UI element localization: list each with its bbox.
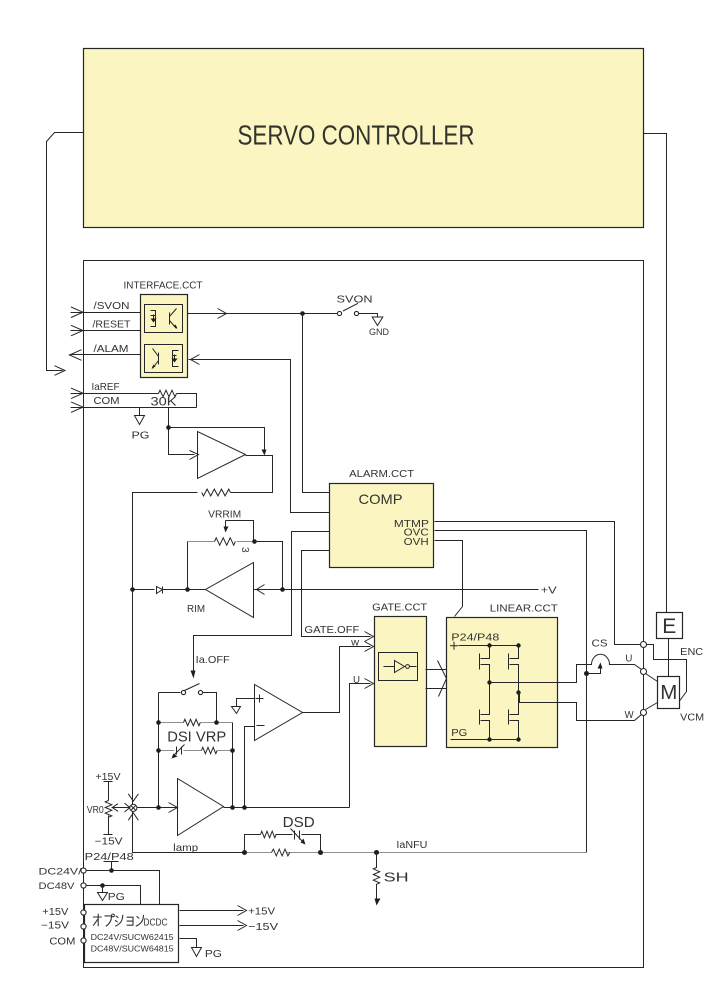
interface block U1 [141,295,188,378]
switch Ia.OFF blade [185,684,200,691]
node SH [374,850,379,855]
resistor follower feedback [202,489,231,496]
wire VRRIM left down to RIM output node [187,542,189,590]
wire DC24V to DCDC [86,871,160,905]
svg-text:CS: CS [592,638,608,650]
diode D1 [157,587,163,594]
svg-text:30K: 30K [151,395,177,409]
arrow w into gate block [365,642,374,652]
op-amp follower [198,432,246,479]
node comparator return [242,805,247,810]
gate buffer cell [379,653,418,681]
wire DC48V to DCDC [86,886,141,905]
wire U phase out [490,682,557,684]
node VRRIM right [252,539,257,544]
wire RIM output to diode [133,589,206,591]
/RESET input wire [71,330,141,332]
wire COMP left to GATE.OFF [302,551,371,637]
buffer symbol [384,661,417,673]
resistor DSI upper [159,722,233,724]
arrow Ia.OFF down [191,671,196,679]
node P24 tap [109,868,114,873]
port DC24V [81,868,86,873]
wire multiplier down to main line [133,812,245,853]
svg-text:DC48V: DC48V [39,881,76,892]
wire comparator minus down [245,727,255,808]
svg-text:INTERFACE.CCT: INTERFACE.CCT [124,280,204,292]
wire MTMP to motor terminal [435,522,641,645]
node DSI return [230,805,235,810]
resistor SH [373,853,379,899]
resistor DSI lower [202,747,218,753]
wire switch right side [203,693,217,723]
svg-text:−15V: −15V [41,921,69,932]
node SVON junction [300,311,305,316]
wire -15V out [180,925,244,927]
arrow into lamp amp [169,803,178,813]
arrow SH ground [375,899,381,906]
PG symbol DCDC out [192,948,202,957]
wire SVON junction down into COMP [303,314,330,493]
svg-text:PG: PG [451,727,467,739]
node lamp input [156,805,161,810]
svg-text:COMP: COMP [359,491,403,507]
port COM [81,938,86,943]
node RIM left [130,587,135,592]
/RESET arrow [71,325,83,336]
arrow into follower [190,451,199,460]
PG symbol near DC48V [98,886,108,901]
op-amp RIM [206,563,254,618]
arrow VR0 wiper [112,804,118,812]
/ALAM arrow [70,350,82,361]
svg-text:SH: SH [384,871,409,885]
plus lead linear [450,642,458,650]
comparator plus [256,695,264,703]
wire +15V out [180,910,244,912]
svg-text:−15V: −15V [95,837,123,848]
svg-text:LINEAR.CCT: LINEAR.CCT [490,603,559,615]
opto 2 LED symbol [173,351,179,367]
svg-text:VR0: VR0 [87,805,104,816]
svg-text:COM: COM [94,395,120,407]
outer enclosure box [84,261,644,968]
encoder E box [657,613,683,639]
DCDC converter box [85,905,179,963]
node follower input [166,425,171,430]
wire feedback resistor to RIM node [133,493,198,590]
node RIM output [185,587,190,592]
wire terminal W into motor [646,703,658,710]
svg-text:PG: PG [132,430,150,442]
P24/P48 tap [104,862,119,871]
top rail linear [459,645,519,647]
motor M box [658,677,680,709]
wire lamp output [224,807,350,809]
COM input wire [71,407,197,409]
svg-text:W: W [625,709,634,721]
svg-text:SERVO CONTROLLER: SERVO CONTROLLER [238,120,475,151]
svg-text:U: U [353,675,360,686]
svg-text:E: E [662,615,676,638]
svg-text:+15V: +15V [248,906,275,918]
katakana option label [93,914,143,927]
optocoupler input cell [145,305,183,333]
svg-text:GATE.CCT: GATE.CCT [372,602,428,614]
terminal MTMP [641,642,647,648]
svg-text:M: M [660,681,677,704]
node DSD right [318,850,323,855]
wire W phase out [519,693,557,703]
svg-text:GATE.OFF: GATE.OFF [304,624,359,636]
wire servo-right down to encoder [644,134,667,613]
trimmer DSD [291,829,304,843]
multiplier symbol [130,804,137,811]
terminal U [641,669,647,675]
arrow RIM input [257,585,265,595]
potentiometer VRRIM body [188,541,215,543]
svg-text:RIM: RIM [187,603,205,615]
svg-text:DC48V/SUCW64815: DC48V/SUCW64815 [91,944,174,954]
arrow into multiplier top [128,794,138,801]
DSD bypass branch [245,835,321,853]
svg-text:P24/P48: P24/P48 [451,632,499,644]
wire comparator plus to ground [237,699,255,707]
transistor Q2 upper right [509,646,519,693]
svg-text:GND: GND [369,327,389,337]
svg-text:U: U [625,653,632,665]
VRRIM wiper wire [226,521,254,542]
wire follower output to feedback resistor [231,456,273,493]
arrow +15V out [238,906,247,916]
svg-text:DSI VRP: DSI VRP [167,729,226,746]
node DSI lower right [230,748,235,753]
switch SVON blade [343,303,358,311]
CS tap [587,667,601,674]
transistor Q1 upper left [480,646,490,683]
arrow on SVON wire [218,309,227,319]
GND symbol at SVON switch [372,317,383,326]
wire switch to GND [359,314,378,318]
wire E to M [668,639,670,677]
SVON output wire to switch [188,313,338,315]
optocoupler output cell [145,345,183,373]
node DSI lower left [156,748,161,753]
wire RIM node down to multiplier [132,590,134,805]
arrow into multiplier left [125,803,130,812]
svg-text:−15V: −15V [248,921,278,933]
arrow into multiplier bottom [128,813,138,820]
svg-text:ALARM.CCT: ALARM.CCT [349,468,415,480]
wire servo-left loop down to IaREF arrow [47,133,84,371]
wire lamp output up to U input [350,684,371,808]
/ALAM output wire [70,354,141,356]
ground at comparator [232,707,241,714]
arrow feedback down [262,450,267,456]
/SVON arrow [71,307,83,318]
servo controller block [84,49,644,228]
node +V line junction [280,587,285,592]
svg-text:ENC: ENC [680,647,703,658]
opto 1 transistor symbol [170,309,177,329]
wire OVC to current sense line [435,531,587,853]
gate to linear wires [426,670,447,689]
svg-text:VCM: VCM [680,713,704,724]
wire terminal MTMP wrap to motor right [647,645,687,702]
comparator op-amp [255,685,303,741]
arrow into opto 2 [191,355,200,365]
svg-text:IaNFU: IaNFU [396,840,427,851]
opto 2 transistor symbol [153,349,159,369]
wire OVH to linear block [435,541,463,617]
svg-text:DCDC: DCDC [144,917,168,928]
wire U to motor with CS loop [557,654,642,682]
svg-text:/RESET: /RESET [93,319,132,331]
svg-text:DC24V/SUCW62415: DC24V/SUCW62415 [91,932,174,942]
svg-text:SVON: SVON [337,294,373,306]
arrow GATE.OFF into gate block [365,632,374,642]
linear block [447,618,558,748]
port DC48V [81,883,86,888]
PG symbol under COM line [135,408,145,425]
svg-text:PG: PG [205,948,222,960]
minus lead linear [451,739,459,741]
svg-text:Ia.OFF: Ia.OFF [196,654,230,666]
wire VR0 wiper to multiplier [112,807,130,809]
wire terminal U into motor [646,674,658,682]
node PG tap [100,883,105,888]
node DSI upper left [156,720,161,725]
wire ALAM return from COMP [189,360,330,513]
arrow VRRIM wiper [224,527,229,533]
COM arrow [71,402,83,413]
wire W to motor [557,703,642,721]
arrow -15V out [238,921,247,931]
wire DSI right branch down [232,723,234,808]
wire RIM input +V line [254,589,539,591]
arrow CS up [598,663,603,669]
svg-text:3: 3 [239,547,250,553]
wire PG out [180,939,197,948]
svg-text:+15V: +15V [42,907,68,918]
transistor Q3 lower left [480,683,490,740]
wire multiplier to lamp amp [137,807,178,809]
/SVON input wire [71,312,141,314]
node DSD left [242,850,247,855]
potentiometer VR0 [104,801,113,835]
svg-text:DC24V/: DC24V/ [39,867,82,878]
node DSI upper right [214,720,219,725]
resistor 30K [159,390,177,397]
gate block [375,617,427,747]
svg-text:COM: COM [49,937,75,948]
svg-text:OVH: OVH [404,537,429,548]
svg-text:PG: PG [108,891,125,903]
port -15V [81,924,86,929]
wire follower feedback top [169,428,265,452]
svg-text:/SVON: /SVON [94,300,130,312]
wire COMP left to Ia.OFF switch [194,532,330,673]
node U phase [487,680,491,684]
op-amp lamp [178,779,224,836]
arrow U into gate block [365,679,374,689]
terminal W [641,710,647,716]
transistor Q4 lower right [509,693,519,740]
svg-text:+V: +V [541,585,557,597]
arrow into box from servo loop [55,366,66,376]
bottom rail linear [459,739,519,741]
comparator minus [257,725,265,727]
node W phase [516,690,520,694]
node CS [584,671,589,676]
wire VRRIM right to RIM input line [255,542,283,590]
opto 1 LED symbol [151,311,156,327]
resistor main line [272,849,290,856]
wire comparator output to w input [303,647,371,713]
svg-text:w: w [350,638,360,649]
IaREF input wire [71,393,159,395]
svg-text:IaREF: IaREF [92,381,120,393]
trimmer DSI [159,750,202,752]
IaREF arrow [71,388,83,399]
port +15V [81,910,86,915]
main line P24 gray [245,852,587,854]
comparator block COMP [330,484,434,568]
chevron gate-linear [438,661,447,697]
svg-text:/ALAM: /ALAM [94,343,129,355]
switch Ia.OFF contacts [181,690,185,694]
wire COM branch down to follower input node [169,408,195,455]
resistor DSD [261,831,277,838]
wire 30K to COM line [177,394,197,408]
switch SVON contact circles [337,311,341,315]
svg-text:VRRIM: VRRIM [208,510,241,521]
svg-text:DSD: DSD [283,814,315,831]
wire switch left side [159,693,181,808]
